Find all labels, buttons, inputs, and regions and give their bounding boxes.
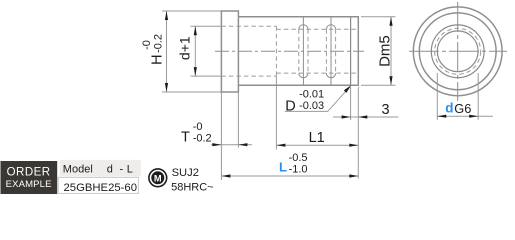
groove 1 center line <box>302 17 304 85</box>
label d+1 <box>176 36 192 60</box>
chamfer line at right end <box>350 17 352 85</box>
dimension H arrows <box>165 11 168 92</box>
label Dm5 <box>376 35 393 67</box>
svg-text:T: T <box>181 130 190 146</box>
flange outline <box>221 11 238 92</box>
bore hidden line bottom left section (d+1) <box>221 75 276 77</box>
svg-text:L1: L1 <box>309 130 325 146</box>
dimension d+1 extension lines <box>191 26 222 76</box>
dimension T arrows <box>212 143 247 146</box>
dimension 3 arrows <box>342 115 368 118</box>
dimension L1 line <box>276 144 358 146</box>
svg-text:-0.2: -0.2 <box>193 133 212 145</box>
dimension H extension lines <box>162 11 221 92</box>
dimension dG6 extension lines <box>437 73 478 120</box>
svg-text:Model: Model <box>63 164 93 176</box>
svg-text:H: H <box>150 54 166 64</box>
groove 1 bottom dome <box>299 73 308 78</box>
front view horizontal centerline <box>409 50 507 52</box>
groove 2 hidden sides <box>326 29 335 73</box>
centerline side view <box>215 50 364 52</box>
svg-text:-0.01: -0.01 <box>299 89 324 101</box>
dimension 3 extension lines <box>351 87 359 179</box>
dimension L line <box>221 175 358 177</box>
dimension H line <box>166 11 168 92</box>
dimension Dm5 extension lines <box>361 17 396 85</box>
groove 1 hidden sides <box>299 29 308 73</box>
groove 2 bottom dome <box>326 73 335 78</box>
dimension 3 line <box>333 116 399 118</box>
dimension dG6 arrows <box>437 115 478 118</box>
svg-text:25GBHE25-60: 25GBHE25-60 <box>64 182 137 194</box>
svg-text:SUJ2: SUJ2 <box>172 167 199 179</box>
svg-text:L: L <box>279 160 287 175</box>
svg-text:-0.03: -0.03 <box>299 100 324 112</box>
label H with tolerance <box>141 34 166 65</box>
groove 2 top dome <box>326 25 335 30</box>
svg-text:-0: -0 <box>141 40 153 50</box>
material icon M outer ring <box>149 169 167 187</box>
dimension dG6 line <box>437 115 493 117</box>
front view hidden bore circle <box>435 28 481 74</box>
dimension d+1 line <box>194 26 196 76</box>
dimension d+1 arrows <box>194 26 197 76</box>
front view vertical centerline <box>457 2 459 101</box>
svg-text:58HRC~: 58HRC~ <box>171 181 214 193</box>
dimension T line <box>211 144 252 146</box>
svg-text:-0: -0 <box>193 121 203 133</box>
leader D arrow <box>344 85 351 93</box>
front view outer circle (flange OD) <box>413 7 502 96</box>
svg-text:d: d <box>445 101 453 116</box>
svg-text:EXAMPLE: EXAMPLE <box>6 179 52 190</box>
svg-text:Dm5: Dm5 <box>376 35 393 67</box>
front view dG6 bore circle <box>437 31 478 72</box>
groove 1 top dome <box>299 25 308 30</box>
groove 2 center line <box>330 17 332 85</box>
svg-text:3: 3 <box>382 102 390 118</box>
dimension Dm5 arrows <box>389 17 392 85</box>
material icon M inner disc <box>151 171 164 184</box>
bore hidden line bottom right section (dG6) <box>276 72 358 74</box>
svg-text:-0.2: -0.2 <box>153 34 165 53</box>
svg-text:-: - <box>120 164 124 176</box>
dimension Dm5 line <box>390 17 392 85</box>
dimension T extension lines <box>221 92 238 180</box>
front view body OD circle <box>419 13 496 90</box>
svg-text:-1.0: -1.0 <box>289 163 308 175</box>
svg-text:d+1: d+1 <box>176 36 192 60</box>
svg-text:G6: G6 <box>454 101 471 116</box>
front view bore chamfer circle <box>431 25 484 78</box>
svg-text:L: L <box>127 164 133 176</box>
bore step hidden vertical <box>275 26 277 76</box>
dimension L arrows <box>221 174 358 177</box>
svg-text:ORDER: ORDER <box>7 166 51 178</box>
model code box <box>58 177 138 193</box>
bore hidden line top right section (dG6) <box>276 28 358 30</box>
dimension L1 arrows <box>276 144 358 147</box>
svg-text:M: M <box>154 173 162 183</box>
svg-text:-0.5: -0.5 <box>289 152 308 164</box>
order example black box <box>1 161 58 194</box>
dimension L1 extension left <box>275 76 277 149</box>
svg-text:d: d <box>107 164 113 176</box>
leader D line <box>285 87 350 112</box>
svg-text:D: D <box>285 98 295 114</box>
body outline <box>238 17 358 85</box>
model header box <box>60 160 141 177</box>
bore hidden line top left section (d+1) <box>221 25 276 27</box>
